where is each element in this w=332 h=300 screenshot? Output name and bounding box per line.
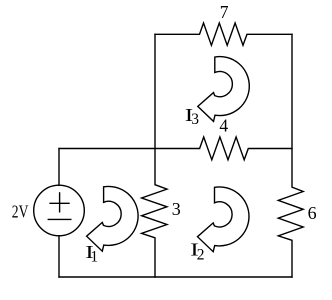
svg-text:4: 4 [219, 115, 228, 135]
svg-text:2V: 2V [12, 202, 29, 222]
svg-text:6: 6 [308, 203, 317, 223]
svg-text:2: 2 [197, 246, 205, 263]
svg-text:3: 3 [172, 199, 181, 219]
svg-text:3: 3 [191, 111, 199, 128]
svg-text:7: 7 [220, 2, 229, 22]
svg-text:1: 1 [90, 248, 98, 265]
